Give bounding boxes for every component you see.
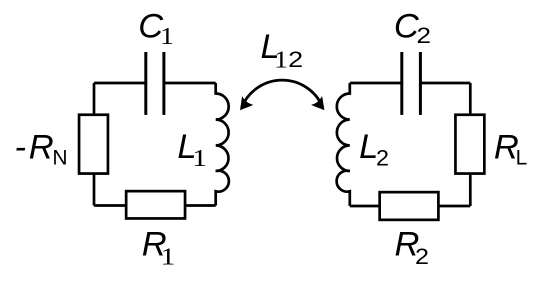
svg-text:-: - <box>15 128 27 166</box>
label R1 <box>142 226 176 271</box>
svg-text:2: 2 <box>288 47 303 72</box>
label R2 <box>395 226 430 269</box>
wire right-lower of right loop <box>469 174 472 206</box>
label C2 <box>394 7 431 48</box>
svg-text:1: 1 <box>192 146 207 172</box>
label RL <box>494 128 527 169</box>
wire bottom-left of right loop <box>350 205 381 208</box>
coupling arrowhead right <box>311 96 330 115</box>
label L12 <box>261 28 304 74</box>
inductor L1 <box>216 83 229 206</box>
wire bottom-right of left loop <box>185 204 216 207</box>
svg-text:1: 1 <box>160 244 175 270</box>
capacitor C1 <box>146 52 164 115</box>
svg-text:N: N <box>52 147 67 170</box>
wire bottom-right of right loop <box>438 205 470 208</box>
resistor RL <box>455 115 484 174</box>
wire top-left of left loop <box>94 82 146 85</box>
svg-text:2: 2 <box>376 146 389 171</box>
label -RN <box>15 128 68 169</box>
svg-text:R: R <box>29 128 54 166</box>
svg-text:2: 2 <box>417 23 432 48</box>
wire left-lower of left loop <box>93 174 96 206</box>
coupling arrow arc L12 <box>242 80 323 108</box>
wire top-right of left loop <box>164 82 216 85</box>
svg-text:L: L <box>516 147 528 170</box>
wire left-upper of left loop <box>93 83 96 115</box>
wire bottom-left of left loop <box>94 204 127 207</box>
wire top-left of right loop <box>350 82 402 85</box>
label L2 <box>359 128 389 171</box>
resistor -RN <box>79 115 108 174</box>
label L1 <box>177 128 207 172</box>
wire top-right of right loop <box>420 82 470 85</box>
resistor R2 <box>380 192 439 220</box>
coupling arrowhead left <box>234 96 253 115</box>
resistor R1 <box>126 191 185 218</box>
capacitor C2 <box>402 52 421 115</box>
svg-text:1: 1 <box>160 24 174 50</box>
label C1 <box>138 7 174 49</box>
svg-text:2: 2 <box>415 244 429 269</box>
inductor L2 <box>337 83 350 206</box>
wire right-upper of right loop <box>469 83 472 115</box>
svg-text:1: 1 <box>274 48 288 74</box>
